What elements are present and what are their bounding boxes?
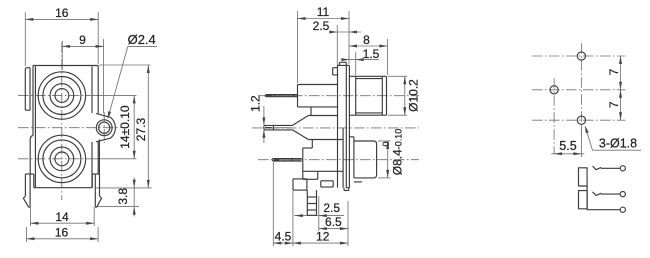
svg-text:1.5: 1.5 (363, 47, 380, 61)
svg-text:Ø10.2: Ø10.2 (407, 79, 421, 112)
svg-text:4.5: 4.5 (275, 230, 292, 244)
svg-text:7: 7 (607, 68, 621, 75)
svg-text:0: 0 (381, 141, 391, 146)
svg-text:3-Ø1.8: 3-Ø1.8 (599, 136, 637, 150)
svg-text:8: 8 (363, 33, 370, 47)
svg-text:6.5: 6.5 (325, 215, 342, 229)
svg-text:2.5: 2.5 (313, 19, 330, 33)
svg-text:11: 11 (317, 5, 330, 19)
svg-text:Ø2.4: Ø2.4 (128, 32, 156, 47)
svg-text:14: 14 (55, 210, 69, 224)
svg-text:5.5: 5.5 (559, 139, 576, 153)
svg-text:27.3: 27.3 (134, 117, 148, 141)
svg-text:7: 7 (607, 101, 621, 108)
svg-text:1.2: 1.2 (248, 95, 262, 112)
svg-text:9: 9 (79, 33, 86, 47)
svg-text:Ø8.4-0.10: Ø8.4-0.10 (391, 129, 405, 176)
svg-text:16: 16 (55, 226, 69, 240)
svg-text:16: 16 (55, 6, 69, 20)
svg-text:2.5: 2.5 (323, 201, 340, 215)
svg-text:14±0.10: 14±0.10 (118, 105, 132, 149)
svg-text:3.8: 3.8 (116, 188, 130, 205)
svg-text:12: 12 (316, 230, 330, 244)
